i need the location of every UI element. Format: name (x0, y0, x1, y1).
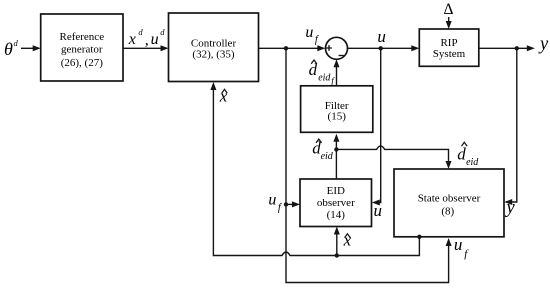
svg-text:generator: generator (61, 43, 103, 55)
label x_hat into controller (219, 86, 228, 105)
block U5 EID observer (14) (300, 179, 372, 227)
svg-text:y: y (505, 198, 516, 218)
svg-text:x: x (219, 86, 228, 105)
wire summing junction to RIP system (348, 45, 420, 51)
wire reference generator output to controller (123, 45, 169, 51)
svg-text:(8): (8) (441, 206, 454, 218)
label u after summing junction (377, 27, 386, 46)
wire u_f feedback from node down, along bottom, up into state observer bottom (286, 48, 452, 282)
svg-text:RIP: RIP (440, 37, 457, 49)
wire Delta disturbance arrow into RIP system top (446, 17, 452, 29)
wire RIP system output to y (479, 45, 535, 51)
svg-text:Reference: Reference (60, 31, 105, 43)
block U6 State observer (8) (394, 169, 504, 237)
node d_eid branch (334, 147, 338, 151)
node u tap (379, 46, 383, 50)
wire filter output d_eid_f up into summing junction (334, 59, 340, 85)
text RIP System block (433, 37, 466, 60)
wire u feedback from node u down and into EID observer right side (372, 48, 381, 205)
label y at state observer right input (505, 198, 516, 218)
label u_f at EID observer left input (268, 191, 283, 213)
text Controller block (191, 37, 237, 60)
svg-text:f: f (278, 202, 283, 213)
label Delta (444, 1, 454, 18)
svg-text:u: u (454, 235, 463, 254)
svg-text:,: , (145, 32, 149, 49)
text EID observer block (317, 185, 355, 221)
svg-text:y: y (538, 34, 549, 54)
label x_hat at EID observer bottom input (343, 231, 352, 250)
svg-text:u: u (377, 27, 386, 46)
svg-text:d: d (138, 27, 143, 37)
svg-text:eid: eid (321, 151, 334, 162)
svg-text:EID: EID (327, 185, 345, 197)
block U3 RIP System (419, 29, 479, 66)
label d_eid right at state observer input (457, 142, 479, 168)
svg-text:u: u (268, 191, 276, 208)
label u at EID observer right input (374, 201, 383, 220)
svg-text:(15): (15) (328, 110, 347, 122)
node y tap (515, 46, 519, 50)
svg-text:u: u (305, 24, 313, 41)
wire x_hat from state observer down, left with hop over u_f line, up into controller bottom (210, 82, 419, 256)
block U4 Filter (15) (301, 86, 373, 133)
svg-text:d: d (457, 144, 466, 163)
svg-text:eid: eid (318, 73, 331, 84)
block U2 Controller (32),(35) (169, 13, 259, 82)
label x^d, u^d (128, 27, 166, 49)
svg-text:Δ: Δ (444, 1, 454, 18)
svg-text:System: System (433, 48, 466, 60)
svg-text:State observer: State observer (418, 193, 481, 205)
node x_hat output on state observer bottom edge (417, 235, 421, 239)
node u_f branch to EID observer (284, 202, 288, 206)
svg-text:x: x (128, 31, 136, 48)
label u_f above controller output (305, 24, 320, 46)
svg-text:(14): (14) (327, 209, 346, 221)
label u_f at state observer bottom input (454, 235, 469, 260)
svg-text:f: f (464, 248, 469, 260)
svg-text:f: f (315, 34, 320, 45)
label y output (538, 34, 549, 54)
text State observer block (418, 193, 481, 218)
text Filter block (325, 100, 349, 123)
svg-text:u: u (374, 201, 383, 220)
svg-text:f: f (331, 76, 335, 86)
node x_hat branch to EID observer (335, 253, 339, 257)
block U1 Reference generator (26),(27) (41, 14, 123, 81)
node u_f tap on controller output (284, 46, 288, 50)
svg-text:θ: θ (4, 39, 13, 59)
label theta^d (4, 38, 19, 59)
wire d_eid branch to state observer top with hop over u line (336, 146, 451, 169)
svg-text:d: d (14, 38, 19, 48)
svg-text:observer: observer (317, 197, 355, 209)
wire u_f branch into EID observer left side (286, 201, 300, 207)
summing junction S1 (326, 37, 348, 59)
svg-text:(26), (27): (26), (27) (61, 57, 103, 69)
wire EID observer output d_eid up into filter (333, 134, 339, 179)
svg-text:(32), (35): (32), (35) (192, 48, 234, 60)
text Reference generator block (60, 31, 105, 69)
svg-text:u: u (151, 31, 159, 48)
wire y feedback from node y down and into state observer right side (504, 48, 517, 205)
svg-text:eid: eid (466, 157, 479, 168)
wire x_hat branch up into EID observer bottom (334, 227, 340, 256)
wire theta-d input arrow (21, 45, 41, 51)
svg-text:d: d (160, 27, 165, 37)
wire controller output u_f to summing junction (259, 45, 326, 51)
label d_eid_f filter output (309, 60, 336, 86)
label d_eid left at filter input (312, 139, 334, 163)
